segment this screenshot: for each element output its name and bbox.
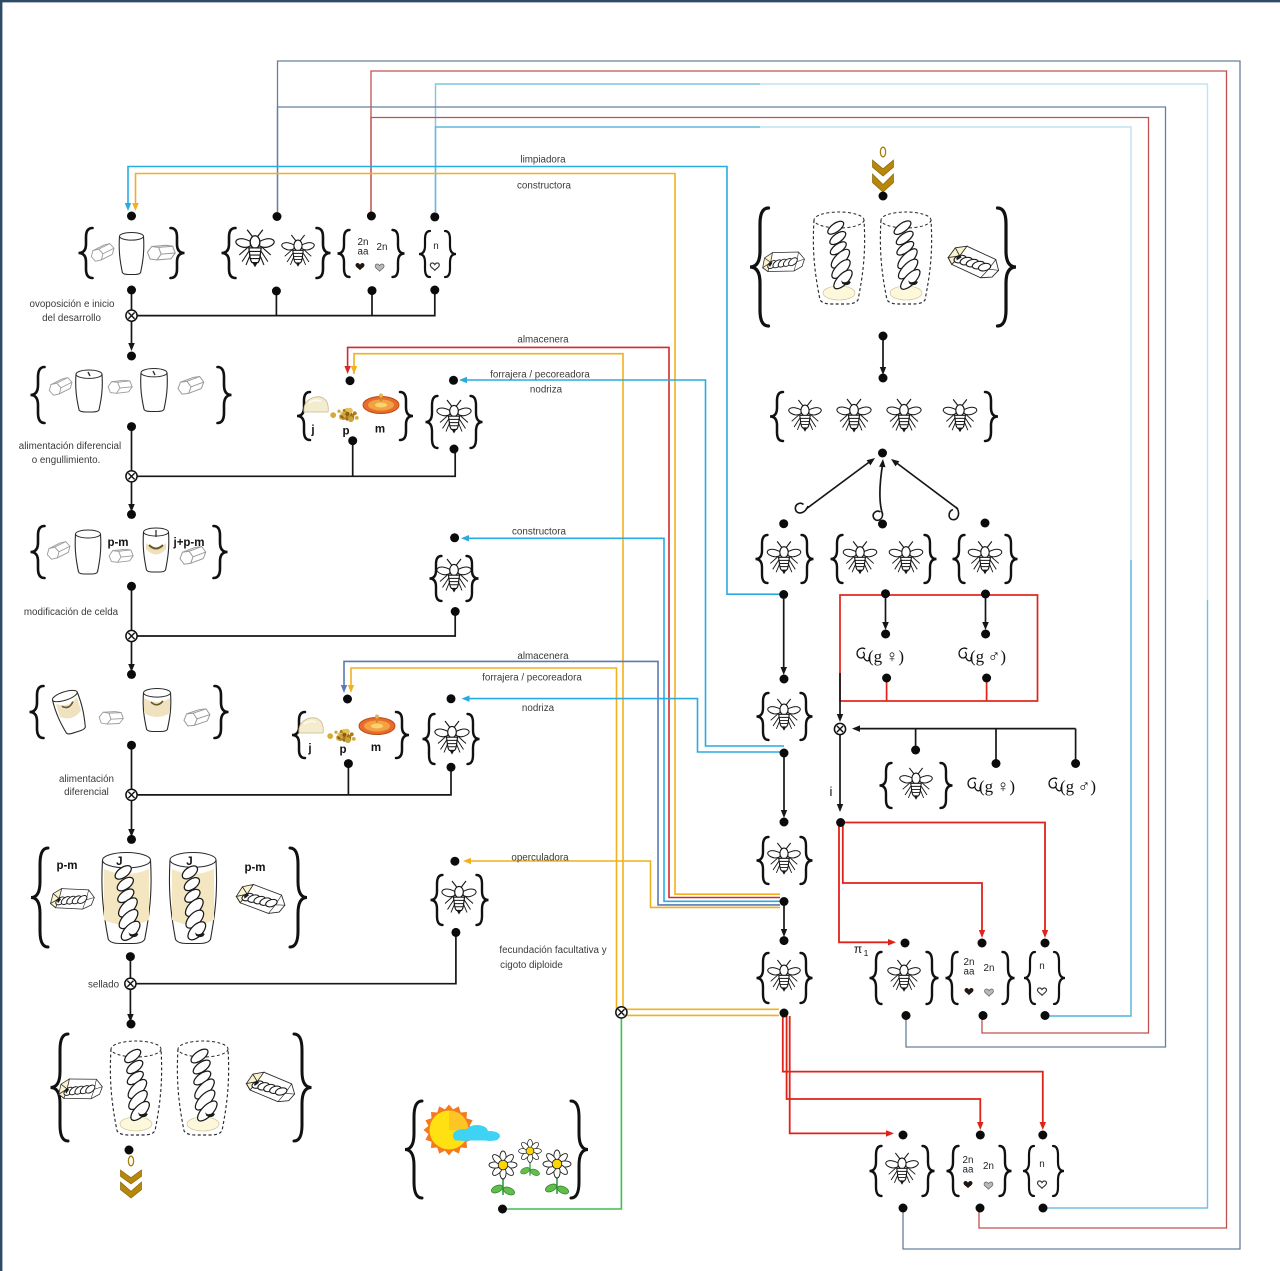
svg-text:(g ♂): (g ♂) — [970, 647, 1006, 666]
svg-text:sellado: sellado — [88, 980, 120, 991]
svg-text:n: n — [1039, 1159, 1044, 1170]
svg-text:forrajera / pecoreadora: forrajera / pecoreadora — [482, 673, 582, 684]
svg-text:operculadora: operculadora — [511, 853, 569, 864]
svg-text:constructora: constructora — [517, 181, 571, 192]
svg-text:2n: 2n — [984, 963, 995, 974]
svg-text:π: π — [854, 942, 862, 956]
svg-text:modificación de celda: modificación de celda — [24, 607, 119, 618]
svg-text:(g ♀): (g ♀) — [979, 777, 1015, 796]
svg-text:cigoto diploide: cigoto diploide — [500, 960, 563, 971]
svg-text:o engullimiento.: o engullimiento. — [32, 455, 101, 466]
svg-text:forrajera / pecoreadora: forrajera / pecoreadora — [490, 370, 590, 381]
svg-text:alimentación: alimentación — [59, 774, 114, 785]
svg-text:J: J — [186, 856, 192, 868]
svg-text:nodriza: nodriza — [522, 703, 555, 714]
svg-text:m: m — [371, 742, 381, 754]
svg-text:p-m: p-m — [56, 860, 77, 872]
svg-text:fecundación facultativa y: fecundación facultativa y — [499, 945, 606, 956]
svg-text:alimentación diferencial: alimentación diferencial — [19, 441, 121, 452]
svg-text:n: n — [433, 241, 438, 252]
svg-text:(g ♂): (g ♂) — [1060, 777, 1096, 796]
svg-text:2n: 2n — [983, 1161, 994, 1172]
svg-text:2n: 2n — [377, 242, 388, 253]
svg-text:m: m — [375, 424, 385, 436]
svg-text:p-m: p-m — [244, 862, 265, 874]
svg-text:aa: aa — [358, 247, 369, 258]
svg-text:del desarrollo: del desarrollo — [42, 313, 101, 324]
svg-text:nodriza: nodriza — [530, 385, 563, 396]
svg-text:i: i — [830, 784, 833, 799]
svg-text:1: 1 — [864, 948, 869, 958]
svg-text:J: J — [116, 856, 122, 868]
svg-text:n: n — [1039, 961, 1044, 972]
svg-text:constructora: constructora — [512, 527, 566, 538]
svg-text:almacenera: almacenera — [517, 651, 569, 662]
svg-text:ovoposición e inicio: ovoposición e inicio — [30, 299, 116, 310]
svg-text:(g ♀): (g ♀) — [868, 647, 904, 666]
svg-text:diferencial: diferencial — [64, 787, 109, 798]
svg-text:p-m: p-m — [107, 537, 128, 549]
svg-text:j: j — [307, 743, 311, 755]
svg-text:j: j — [310, 425, 314, 437]
svg-text:p: p — [339, 744, 346, 756]
svg-text:aa: aa — [963, 1165, 974, 1176]
svg-text:almacenera: almacenera — [517, 335, 569, 346]
svg-text:limpiadora: limpiadora — [520, 155, 566, 166]
svg-text:aa: aa — [964, 967, 975, 978]
svg-text:p: p — [342, 426, 349, 438]
